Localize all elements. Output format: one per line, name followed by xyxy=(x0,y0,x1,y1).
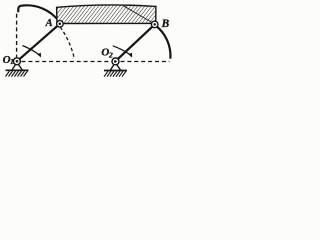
rotation arrow at O2 xyxy=(113,46,132,58)
fixed pivot O2: ground line xyxy=(104,70,127,72)
path arc of A, solid bold (swing of crank O1-A) xyxy=(18,5,59,21)
crank O2-B xyxy=(115,24,154,61)
horizontal dashed centerline right of O2 xyxy=(121,61,170,63)
horizontal dashed centerline O1-O2 xyxy=(22,61,112,63)
crank O1-A xyxy=(17,24,60,62)
pin joint O1 xyxy=(13,58,20,65)
pin joint O2 xyxy=(112,58,119,65)
ground hatching at O1 xyxy=(6,71,28,77)
rotation arrow at O1 xyxy=(23,46,42,58)
label O1 xyxy=(3,54,14,66)
path arc of B, thin line across bar toward B xyxy=(124,6,155,24)
svg-text:A: A xyxy=(45,18,53,29)
label O2 xyxy=(101,46,113,59)
label B xyxy=(161,18,170,30)
path arc of A, dashed continuation below A xyxy=(60,27,74,58)
ground hatching at O2 xyxy=(104,71,126,77)
fixed pivot O1: ground line xyxy=(6,69,29,71)
pin joint A xyxy=(57,21,64,28)
fixed pivot O2: support legs xyxy=(110,62,120,70)
fixed pivot O1: support legs xyxy=(12,62,22,70)
coupler bar AB (hatched, slightly bowed top edge) xyxy=(57,5,156,24)
label A xyxy=(45,18,53,29)
path arc of B, solid bold below B xyxy=(156,26,171,59)
vertical dashed centerline above O1 xyxy=(16,14,18,57)
svg-text:B: B xyxy=(161,18,170,30)
pin joint B xyxy=(151,21,158,28)
